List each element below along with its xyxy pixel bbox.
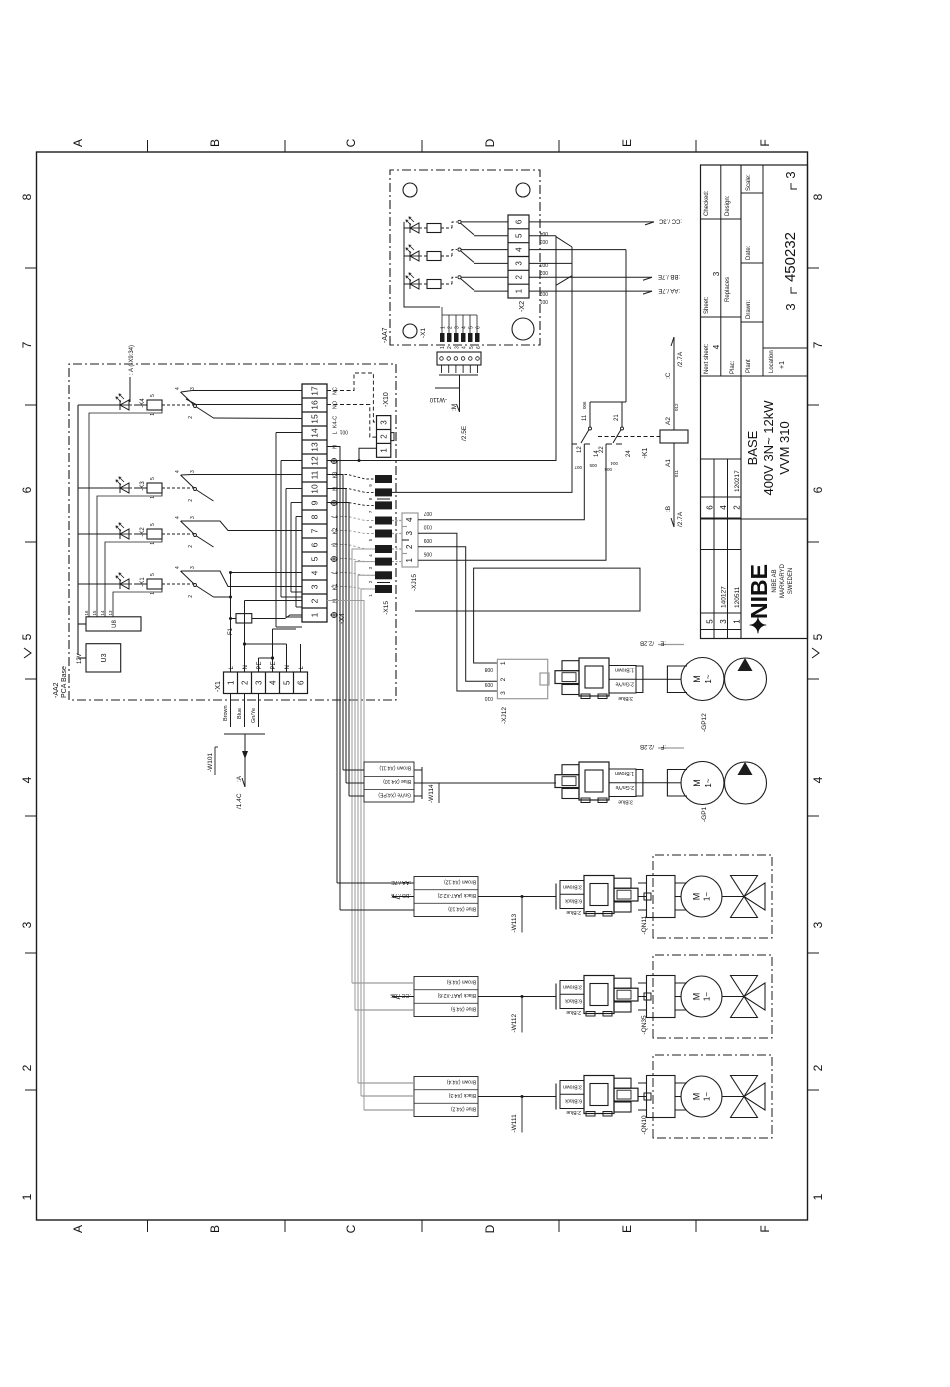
svg-text:010: 010 [423, 523, 432, 529]
svg-text:4: 4 [811, 776, 825, 783]
links X4 to X15 [331, 587, 375, 590]
svg-text:3: 3 [254, 680, 263, 685]
svg-text:Blue (X4:10): Blue (X4:10) [383, 778, 411, 784]
svg-text:12V: 12V [77, 653, 83, 664]
relay on AA7 [410, 279, 419, 289]
svg-text:3: 3 [783, 303, 798, 310]
svg-text:4: 4 [268, 680, 277, 685]
wire 007 from X15:8 [392, 444, 572, 492]
module U8 [86, 617, 141, 631]
svg-text::CC /.3C: :CC /.3C [658, 218, 682, 224]
svg-text:A: A [71, 1225, 85, 1233]
svg-text:003: 003 [539, 238, 548, 244]
svg-text:4: 4 [310, 570, 320, 575]
svg-text:Sheet:: Sheet: [704, 296, 710, 314]
svg-text:22: 22 [599, 446, 605, 453]
plug connector pair [584, 876, 614, 914]
wire from X4 to cable [352, 549, 375, 983]
board AA2 PCA Base outline [69, 364, 396, 700]
svg-text:-X2: -X2 [519, 301, 526, 312]
svg-text:3: 3 [380, 420, 389, 425]
svg-text:M: M [692, 993, 702, 1001]
terminal X4 17-pole [302, 384, 327, 622]
svg-text:3: 3 [310, 584, 320, 589]
svg-text:-XJ12: -XJ12 [501, 707, 508, 724]
wire from X4 to cable [355, 562, 375, 1010]
connector XJ12 [497, 659, 547, 698]
motor -QN35 [681, 976, 722, 1017]
svg-text:001: 001 [339, 429, 348, 435]
cable W101 [244, 734, 246, 787]
module U3 [86, 644, 121, 672]
svg-text:L: L [333, 515, 339, 518]
svg-text:3:Brown: 3:Brown [563, 984, 582, 990]
svg-text:2: 2 [733, 505, 742, 510]
svg-text:12: 12 [577, 446, 583, 453]
terminal X2 on AA7 [508, 215, 529, 298]
svg-text:4: 4 [719, 505, 728, 510]
svg-text:5: 5 [282, 680, 291, 685]
svg-text:E: E [620, 1225, 634, 1233]
svg-text:3: 3 [811, 921, 825, 928]
svg-text:-K1: -K1 [642, 447, 649, 458]
svg-text:B: B [208, 139, 222, 147]
svg-text:A: A [71, 139, 85, 147]
svg-text:9: 9 [310, 500, 320, 505]
svg-text:17: 17 [310, 386, 320, 396]
svg-text:7: 7 [20, 341, 34, 348]
svg-text:004: 004 [610, 461, 618, 466]
relay -K3 on AA2 [78, 487, 120, 489]
wire 009 XJ5:2 to XJ12:2 [418, 547, 497, 682]
svg-text:14: 14 [310, 428, 320, 438]
svg-text:15: 15 [310, 414, 320, 424]
relay on AA7 [410, 251, 419, 261]
svg-text:NIBE AB: NIBE AB [772, 569, 778, 592]
svg-text:7: 7 [310, 528, 320, 533]
wire from X4 to cable [327, 461, 337, 884]
svg-text:Gn/Ye: Gn/Ye [251, 708, 257, 723]
GP1 wires plug to motor [642, 769, 644, 797]
svg-text:1~: 1~ [703, 992, 712, 1001]
svg-text:VVM 310: VVM 310 [777, 421, 792, 474]
X2 pin drops 1 3 5 [529, 290, 556, 292]
svg-text:Plac:: Plac: [730, 360, 736, 374]
wire from X4 to cable [358, 575, 375, 1083]
svg-text:3: 3 [190, 516, 196, 519]
motor -QN10 [681, 1076, 722, 1117]
svg-text:5: 5 [469, 326, 475, 329]
valve unit -QN10 box [653, 1055, 772, 1138]
svg-text:NC: NC [333, 387, 339, 395]
svg-text:-X10: -X10 [383, 392, 390, 407]
svg-text:-GP1: -GP1 [701, 806, 708, 822]
svg-text:5: 5 [514, 233, 523, 238]
svg-text:K4-C: K4-C [333, 416, 339, 429]
svg-text:-AA2: -AA2 [53, 682, 60, 698]
svg-text:/1.4C: /1.4C [236, 793, 243, 809]
svg-text::C: :C [665, 372, 672, 379]
U8 pin wires to relay coils [89, 410, 162, 617]
svg-text:Next sheet:: Next sheet: [704, 343, 710, 374]
cable W114 marker [414, 769, 422, 771]
svg-text:1: 1 [500, 661, 507, 665]
svg-text:SWEDEN: SWEDEN [788, 568, 794, 594]
svg-text:11: 11 [310, 470, 320, 479]
svg-text:PE: PE [271, 661, 277, 669]
svg-text:12: 12 [310, 456, 320, 466]
XJ5 to X15 links [392, 561, 402, 563]
svg-text:1: 1 [310, 612, 320, 617]
cable -W112 to plug [478, 996, 556, 998]
svg-text:-X15: -X15 [383, 601, 390, 615]
svg-text:2:Gn/Ye: 2:Gn/Ye [615, 784, 634, 790]
K1 commons tie [590, 401, 626, 403]
svg-text:C: C [344, 1224, 358, 1233]
bus diagonals at X2 pins [556, 276, 572, 286]
svg-text:Brown (X4:11): Brown (X4:11) [379, 765, 411, 771]
svg-text:3:Brown: 3:Brown [563, 884, 582, 890]
svg-text:-W111: -W111 [511, 1114, 518, 1133]
svg-text:3: 3 [20, 921, 34, 928]
relay -K1 on AA2 [78, 583, 120, 585]
svg-text:16: 16 [310, 400, 320, 410]
AA7 relay supply rail [403, 222, 405, 284]
svg-text:6: 6 [476, 346, 482, 349]
svg-text:15: 15 [92, 610, 97, 616]
svg-text::AA /.7E: :AA /.7E [391, 879, 411, 885]
connector XJ15 [402, 513, 418, 567]
svg-text:D: D [483, 1224, 497, 1233]
-QN10 socket to motor wires [675, 1109, 687, 1111]
svg-text:-K3: -K3 [140, 481, 146, 491]
output AA7-X2:1 to AA :AA ref [556, 290, 652, 292]
wire 008 staircase to XJ12:1 [415, 568, 640, 663]
svg-text:2: 2 [380, 434, 389, 439]
svg-text:-W101: -W101 [207, 752, 214, 772]
svg-text:3: 3 [190, 470, 196, 473]
svg-text:3: 3 [190, 387, 196, 390]
svg-text:8: 8 [811, 193, 825, 200]
svg-text:M: M [692, 1093, 702, 1101]
svg-text:3: 3 [455, 326, 461, 329]
svg-text:006: 006 [582, 401, 587, 409]
svg-text:005: 005 [423, 550, 432, 556]
svg-text:3: 3 [514, 261, 523, 266]
svg-text:2: 2 [188, 595, 194, 598]
-QN35 plug wire labels [560, 981, 584, 1009]
svg-text:N: N [285, 665, 291, 669]
wire from X4 to cable [361, 589, 375, 1096]
title block revision table [713, 459, 715, 639]
title block outline [701, 165, 808, 639]
contactor K1 coil [660, 430, 688, 443]
X1 input cable tails Brown Blue GnYe [230, 694, 232, 728]
wire from XJ5:4 to contact 14 [418, 444, 584, 520]
pump symbol GP1 [725, 762, 767, 804]
wire from X4 to cable [327, 503, 349, 797]
plug connector pair [562, 685, 579, 695]
svg-text:Blue: Blue [237, 708, 243, 719]
svg-text:-W113: -W113 [511, 913, 518, 932]
svg-text:8: 8 [310, 514, 320, 519]
svg-text:3: 3 [783, 171, 798, 178]
plug connector pair [584, 1076, 614, 1114]
relay -K2 on AA2 [78, 533, 120, 535]
svg-text:Drawn:: Drawn: [746, 300, 752, 319]
svg-text:5: 5 [706, 619, 715, 624]
relay -K4 on AA2 [78, 404, 120, 406]
svg-text:N: N [243, 665, 249, 669]
svg-text:Black (X4:3): Black (X4:3) [448, 1092, 476, 1098]
svg-text:1~: 1~ [703, 1092, 712, 1101]
wire from X4 to cable [327, 447, 340, 911]
supply rail 12V [77, 405, 79, 655]
-QN11 socket [647, 876, 676, 918]
svg-text:1~: 1~ [704, 674, 713, 683]
svg-text:NIBE: NIBE [746, 564, 772, 619]
GP12 plug wire labels [609, 666, 636, 694]
-QN35 socket [647, 976, 676, 1018]
W110 external plug [437, 352, 481, 365]
wire 12V ref A (-X9:34) [105, 404, 113, 406]
svg-text:3: 3 [405, 530, 414, 535]
svg-text:1: 1 [226, 680, 235, 685]
svg-text:012: 012 [674, 403, 679, 411]
svg-text::AA /.7E: :AA /.7E [658, 287, 680, 293]
motor GP1 [681, 762, 724, 805]
svg-text:Black (AA7-X2:2): Black (AA7-X2:2) [437, 892, 476, 898]
wire from X4 to cable [327, 475, 343, 771]
svg-text:5: 5 [20, 633, 34, 640]
svg-text:005: 005 [589, 463, 597, 468]
-QN11 socket to motor wires [675, 909, 687, 911]
svg-text:-K1: -K1 [140, 577, 146, 587]
svg-text:1:Brown: 1:Brown [615, 667, 634, 673]
svg-text:6:Black: 6:Black [565, 1098, 582, 1104]
svg-text:Brown (X4:12): Brown (X4:12) [444, 879, 476, 885]
svg-text::BB /.7E: :BB /.7E [658, 273, 680, 279]
svg-text:Brown: Brown [223, 705, 229, 721]
svg-text:-F1: -F1 [228, 627, 234, 637]
svg-text:Black (AA7-X2:6): Black (AA7-X2:6) [437, 992, 476, 998]
svg-text:Location: Location [769, 350, 775, 373]
svg-text:: A (-X9:34): : A (-X9:34) [129, 345, 135, 375]
svg-text:4: 4 [462, 346, 468, 349]
svg-text:Blue (X4:5): Blue (X4:5) [451, 1006, 476, 1012]
plug connector pair [562, 789, 579, 799]
svg-text:-W110: -W110 [429, 396, 447, 402]
K1 contact 11-12-14 [589, 402, 591, 427]
svg-text:3: 3 [454, 346, 460, 349]
svg-text:/2.2B: /2.2B [640, 743, 654, 749]
X4 pole function labels [331, 612, 336, 617]
svg-text:-K4: -K4 [140, 398, 146, 408]
svg-text:5: 5 [150, 394, 156, 397]
svg-text:1: 1 [150, 413, 156, 416]
GP1 ref F 2.2B [658, 747, 684, 749]
svg-text:3: 3 [712, 271, 721, 276]
svg-text:M: M [692, 779, 702, 787]
N wire X1:2 to X4:2 [244, 601, 246, 673]
wire from XJ5:1 to contact 22 [418, 444, 606, 560]
svg-text:5: 5 [811, 633, 825, 640]
svg-text:/2.2B: /2.2B [640, 640, 654, 646]
valve unit -QN11 box [653, 855, 772, 938]
nested L N PE rails to X4 cells [275, 433, 277, 628]
svg-text:MARKARYD: MARKARYD [780, 563, 786, 598]
svg-text:A1: A1 [665, 459, 672, 467]
svg-text:120511: 120511 [734, 586, 741, 608]
svg-text:U3: U3 [101, 653, 108, 662]
svg-text:006: 006 [604, 467, 612, 472]
GP12 wires plug to motor [642, 666, 644, 694]
wire 006 common feed [625, 250, 627, 402]
svg-text:6: 6 [514, 219, 523, 224]
svg-text:2: 2 [405, 544, 414, 549]
svg-text:/2.7A: /2.7A [677, 511, 684, 527]
svg-text:-W112: -W112 [511, 1013, 518, 1032]
svg-text:11: 11 [582, 414, 588, 421]
svg-text:1: 1 [150, 592, 156, 595]
svg-text:4: 4 [462, 326, 468, 329]
svg-text::B: :B [665, 506, 672, 512]
motor -QN11 [681, 876, 722, 917]
svg-text:2: 2 [188, 545, 194, 548]
svg-text:2: 2 [20, 1064, 34, 1071]
output AA7-X2:6 to :CC ref [529, 221, 654, 223]
svg-text:Checked:: Checked: [704, 190, 710, 216]
pump symbol GP12 [725, 658, 767, 700]
svg-text:5: 5 [469, 346, 475, 349]
svg-text:Date:: Date: [746, 245, 752, 260]
svg-text:-QN11: -QN11 [641, 915, 648, 934]
svg-text:4: 4 [405, 517, 414, 522]
revision wedge marks [24, 648, 31, 658]
svg-text:L: L [333, 431, 339, 434]
svg-text::F: :F [660, 743, 666, 749]
svg-text:450232: 450232 [782, 232, 799, 282]
svg-text:2: 2 [500, 677, 507, 681]
svg-text:1: 1 [514, 288, 523, 293]
K1 actuation dashed link [598, 436, 660, 438]
K1 contact 21-22-24 [621, 402, 623, 427]
svg-text:6: 6 [811, 486, 825, 493]
svg-text:5: 5 [150, 573, 156, 576]
svg-text:4: 4 [175, 470, 181, 473]
svg-text:F: F [758, 1225, 772, 1232]
valve symbol -QN11 [722, 896, 744, 898]
svg-text:400V 3N~ 12kW: 400V 3N~ 12kW [761, 400, 776, 496]
fuse F1 [229, 617, 232, 620]
svg-text:13: 13 [310, 442, 320, 452]
-QN10 socket [647, 1076, 676, 1118]
cable wire label box [414, 877, 478, 917]
svg-text:L: L [333, 571, 339, 574]
terminal X1 on AA2 [224, 672, 308, 694]
svg-text:1:Brown: 1:Brown [615, 770, 634, 776]
svg-text:3:Blue: 3:Blue [618, 799, 633, 805]
wire 010 XJ5:3 to XJ12:3 [418, 533, 497, 691]
-QN10 plug wire labels [560, 1081, 584, 1109]
dashed links X4 to X10 [327, 373, 377, 422]
svg-text:16: 16 [84, 610, 89, 616]
wire bus 001 [327, 236, 556, 461]
svg-text::E: :E [660, 640, 666, 646]
svg-text:8: 8 [20, 193, 34, 200]
valve symbol -QN35 [722, 996, 744, 998]
svg-text:-X1: -X1 [420, 328, 427, 339]
svg-text:2: 2 [514, 274, 523, 279]
svg-text:/2.7A: /2.7A [677, 351, 684, 367]
svg-text:001: 001 [539, 298, 548, 304]
svg-text:Blue (X4:2): Blue (X4:2) [451, 1106, 476, 1112]
svg-text:2: 2 [310, 598, 320, 603]
svg-text:5: 5 [310, 556, 320, 561]
cable W110 [459, 375, 461, 388]
-QN35 wires plug to socket [638, 1009, 647, 1011]
svg-text:1: 1 [150, 496, 156, 499]
svg-text:2: 2 [447, 346, 453, 349]
svg-text:Scale:: Scale: [746, 174, 752, 191]
relay K1-K4 wiring to X4 [181, 391, 302, 393]
svg-text:2:Gn/Ye: 2:Gn/Ye [615, 681, 634, 687]
svg-text:1: 1 [380, 448, 389, 453]
svg-text:2:Blue: 2:Blue [566, 1109, 581, 1115]
svg-text:13: 13 [108, 610, 113, 616]
svg-text:3: 3 [190, 566, 196, 569]
svg-text:C: C [344, 138, 358, 147]
svg-text:Gn/Ye (X4:PE): Gn/Ye (X4:PE) [378, 792, 411, 798]
svg-text:+1: +1 [779, 361, 786, 369]
svg-text:1: 1 [811, 1193, 825, 1200]
svg-text:1: 1 [150, 542, 156, 545]
GP1 plug wire labels [609, 769, 636, 797]
svg-text:M: M [692, 675, 702, 683]
svg-text:D: D [483, 138, 497, 147]
svg-text:2: 2 [188, 499, 194, 502]
board AA7 outline [390, 170, 540, 345]
svg-text:A2: A2 [665, 417, 672, 425]
svg-text:2: 2 [240, 680, 249, 685]
svg-text:14: 14 [100, 610, 105, 616]
svg-text:6: 6 [20, 486, 34, 493]
wire bus 002-003 [571, 247, 573, 444]
svg-text:6:Black: 6:Black [565, 898, 582, 904]
svg-text:Blue (X4:13): Blue (X4:13) [448, 906, 476, 912]
svg-text::M: :M [451, 404, 458, 411]
svg-text:Plant: Plant [746, 359, 752, 373]
svg-text:2: 2 [448, 326, 454, 329]
svg-text:1: 1 [733, 619, 742, 624]
svg-text:K2: K2 [333, 528, 339, 535]
-QN35 socket to motor wires [675, 1009, 687, 1011]
svg-text:6:Black: 6:Black [565, 998, 582, 1004]
W110 plug tails [441, 365, 443, 373]
svg-text:B: B [208, 1225, 222, 1233]
svg-text:2:Blue: 2:Blue [566, 1009, 581, 1015]
plug connector pair [584, 976, 614, 1014]
svg-text:140127: 140127 [721, 586, 728, 608]
GP12 ref E 2.2B [658, 644, 684, 646]
svg-text:4: 4 [20, 776, 34, 783]
svg-text:5: 5 [150, 523, 156, 526]
svg-text:PE: PE [257, 661, 263, 669]
svg-text:3: 3 [500, 691, 507, 695]
svg-text:N: N [333, 543, 339, 547]
svg-text:4: 4 [175, 387, 181, 390]
valve symbol -QN10 [722, 1096, 744, 1098]
